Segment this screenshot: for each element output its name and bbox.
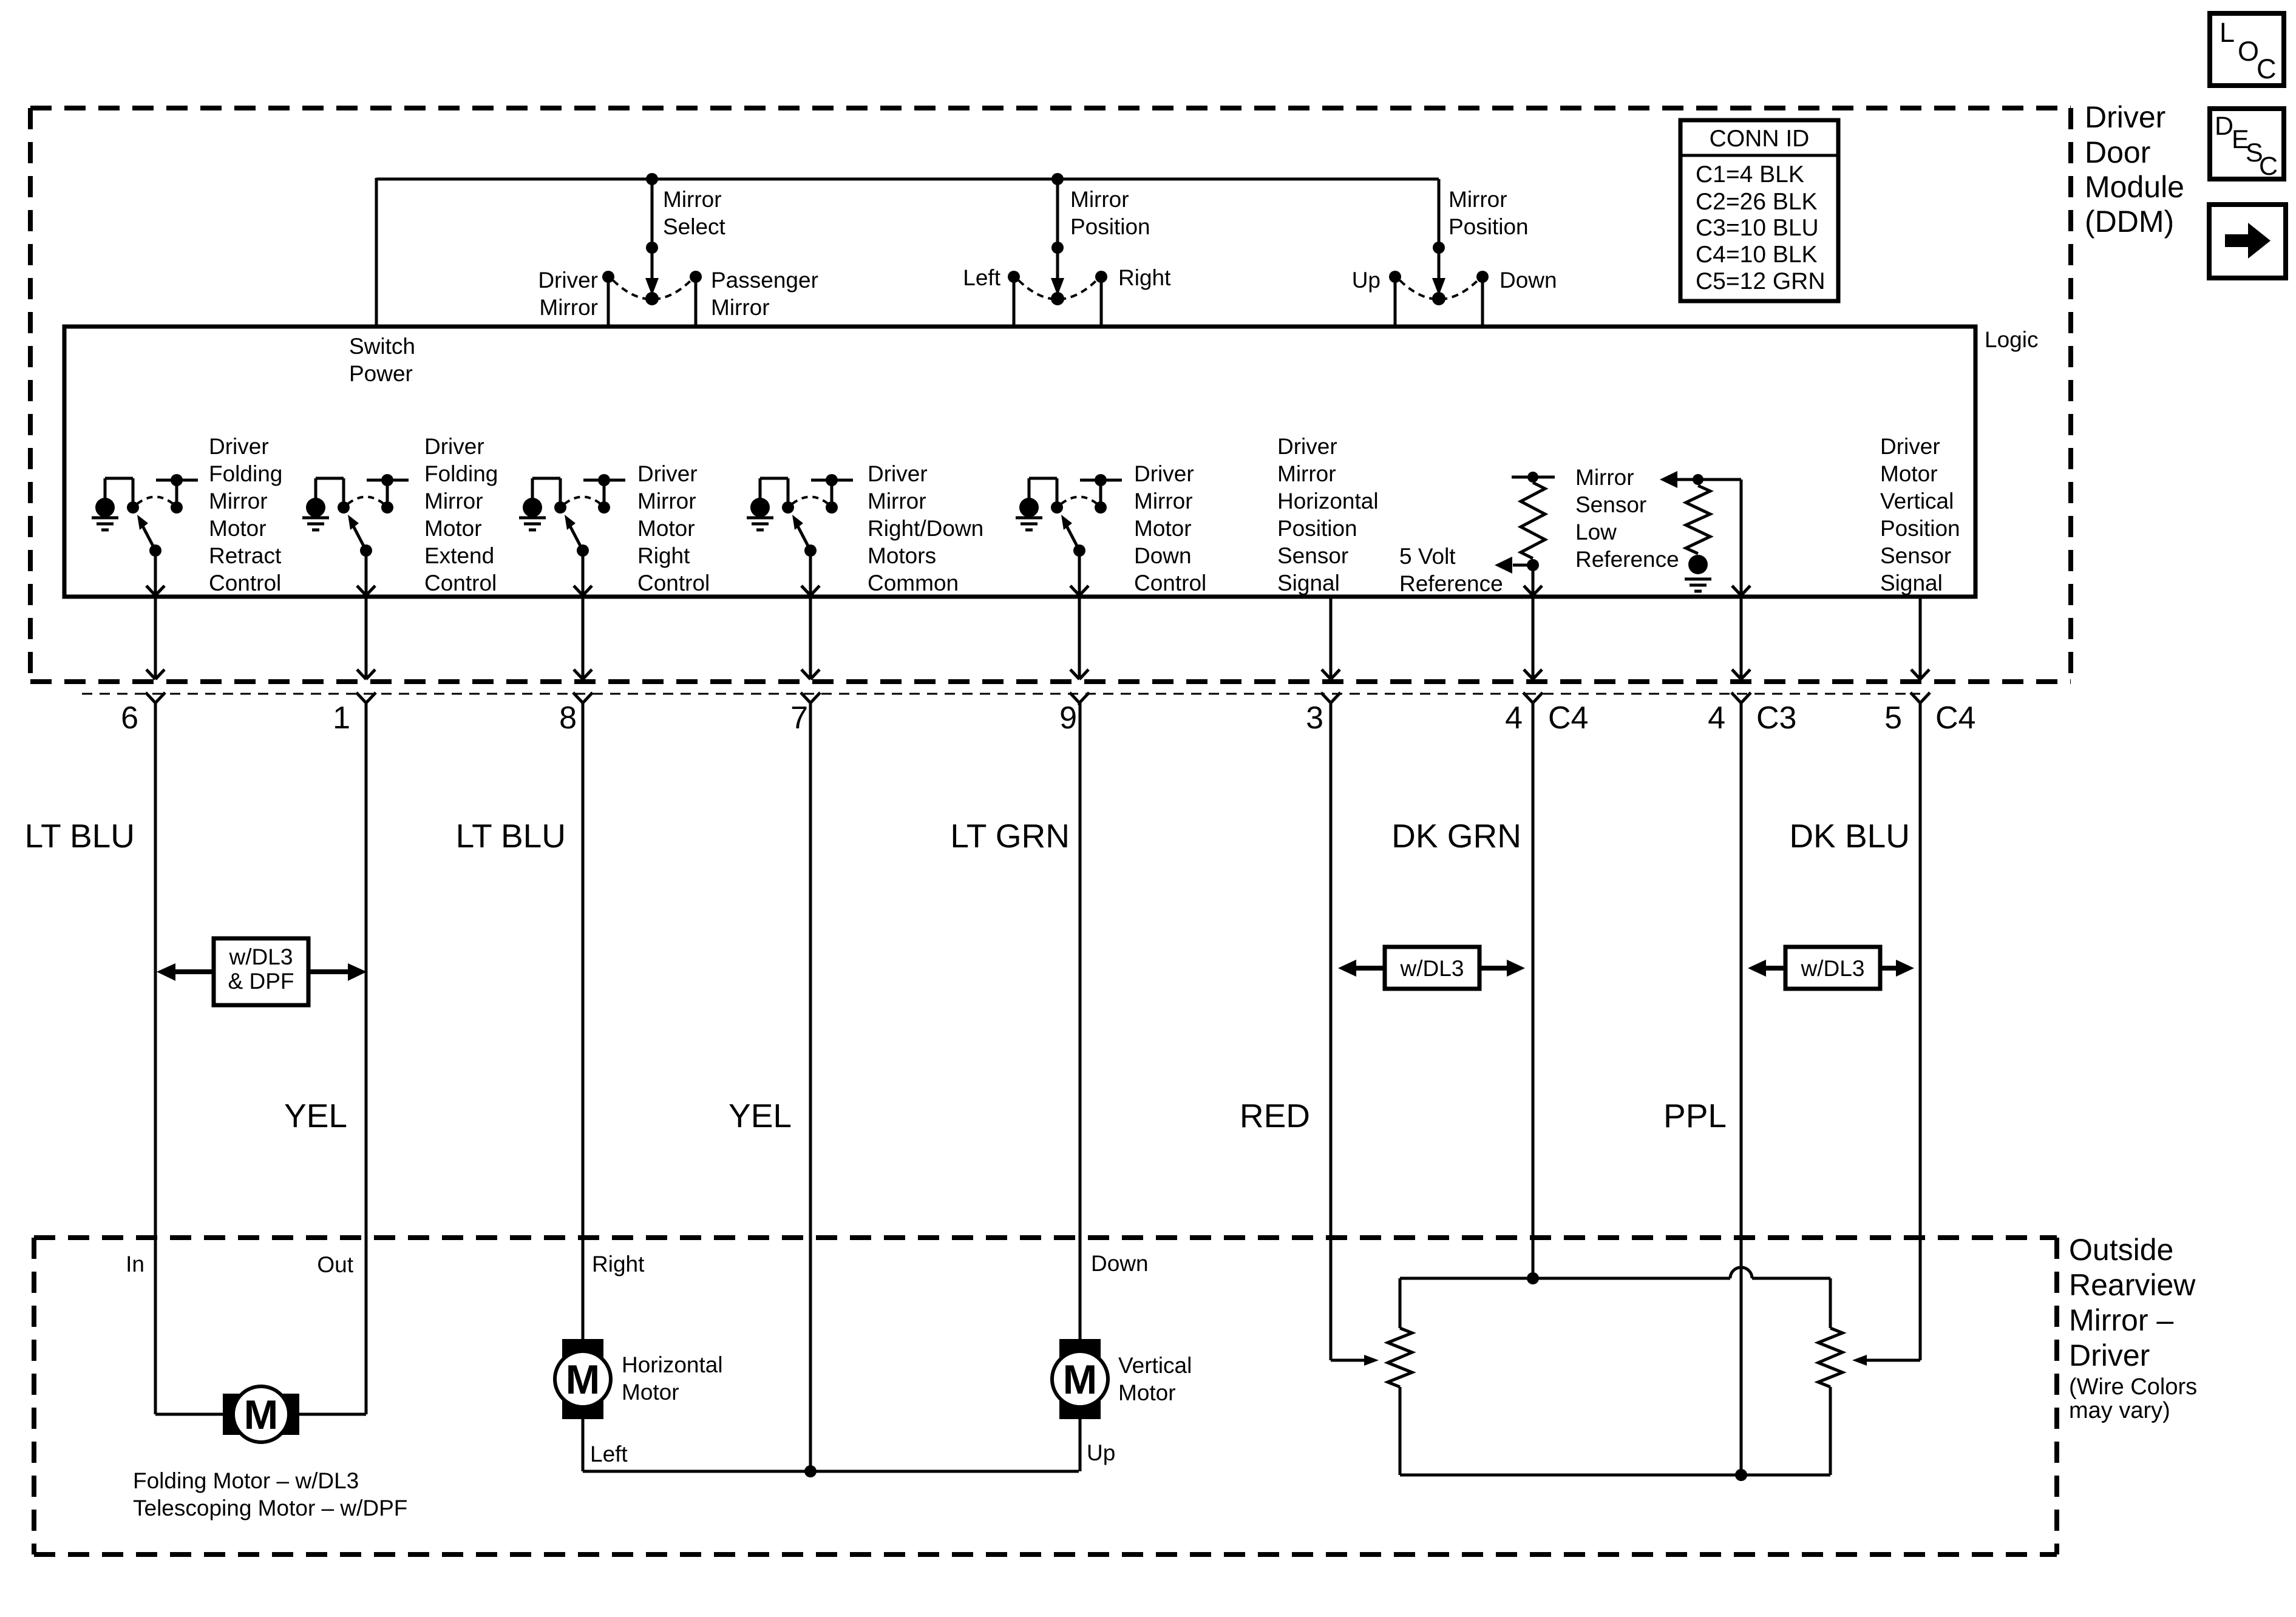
pin 4 (C3) label (1708, 700, 1796, 736)
svg-text:Right: Right (592, 1252, 645, 1276)
label: S2 Driver Folding Mirror Motor Extend Control (424, 434, 498, 595)
svg-text:C4: C4 (1935, 700, 1975, 736)
svg-text:C3: C3 (1756, 700, 1796, 736)
label: In (126, 1252, 144, 1276)
svg-text:DK GRN: DK GRN (1391, 817, 1521, 855)
label: 5 Volt Reference (1399, 544, 1503, 596)
svg-text:Motor: Motor (424, 516, 482, 541)
svg-text:Position: Position (1880, 516, 1960, 541)
svg-text:& DPF: & DPF (228, 969, 294, 994)
label: Down (wire 9) (1091, 1251, 1149, 1276)
svg-text:Door: Door (2085, 135, 2150, 169)
svg-text:Position: Position (1070, 214, 1150, 239)
svg-text:Driver: Driver (1880, 434, 1940, 459)
label: LT BLU (pin 8 wire) (456, 817, 566, 855)
svg-text:Mirror: Mirror (424, 489, 483, 514)
option box w/DL3 (vertical sensor) (1748, 947, 1914, 989)
wire 9 LT GRN run (1079, 703, 1082, 1339)
svg-text:Mirror: Mirror (868, 489, 926, 514)
option box w/DL3 (sensor signal) (1338, 947, 1525, 989)
svg-text:LT BLU: LT BLU (456, 817, 566, 855)
label: Vertical Motor (1118, 1353, 1192, 1405)
svg-text:LT GRN: LT GRN (950, 817, 1070, 855)
svg-text:Driver: Driver (538, 268, 598, 293)
svg-text:Driver: Driver (209, 434, 269, 459)
pin 7 label (790, 700, 808, 736)
wire: sensor loop bottom (1400, 1474, 1830, 1477)
svg-text:Telescoping Motor – w/DPF: Telescoping Motor – w/DPF (133, 1496, 407, 1520)
svg-text:DK BLU: DK BLU (1789, 817, 1910, 855)
label: DK BLU (pin 5 wire) (1789, 817, 1910, 855)
pin 3 label (1306, 700, 1323, 736)
svg-text:Position: Position (1449, 214, 1529, 239)
label: Outside Rearview Mirror - Driver (2069, 1233, 2197, 1423)
svg-text:Up: Up (1087, 1440, 1115, 1465)
option box w/DL3 & DPF (157, 938, 367, 1005)
LOC legend box (2210, 13, 2284, 86)
svg-text:Motor: Motor (1134, 516, 1192, 541)
svg-text:Signal: Signal (1277, 571, 1340, 595)
svg-text:LT BLU: LT BLU (25, 817, 135, 855)
switch S1 Driver Folding Mirror Motor Retract Control (92, 474, 198, 595)
wire: horizontal motor to common (583, 1419, 1079, 1471)
svg-text:Motor: Motor (1880, 461, 1938, 486)
svg-text:Motor: Motor (1118, 1380, 1176, 1405)
svg-text:Down: Down (1500, 268, 1557, 293)
switch SW2 Mirror Position (left/right) (1008, 173, 1107, 328)
motor M3 vertical (1052, 1339, 1108, 1419)
svg-text:D: D (2215, 112, 2233, 141)
label: S5 Driver Mirror Motor Down Control (1134, 461, 1206, 595)
wire: sensor loop top (1400, 1267, 1830, 1278)
svg-text:may vary): may vary) (2069, 1398, 2170, 1423)
svg-text:Vertical: Vertical (1118, 1353, 1192, 1378)
svg-text:Outside: Outside (2069, 1233, 2173, 1267)
svg-text:Driver: Driver (1277, 434, 1337, 459)
svg-text:w/DL3: w/DL3 (1400, 956, 1464, 981)
wire 8 LT BLU run (582, 703, 585, 1339)
svg-text:Control: Control (1134, 571, 1206, 595)
wire 3 RED run (1331, 703, 1379, 1366)
svg-text:Sensor: Sensor (1880, 543, 1951, 568)
wire 4C3 PPL run (1735, 703, 1747, 1481)
svg-text:Extend: Extend (424, 543, 494, 568)
svg-text:Reference: Reference (1575, 547, 1679, 572)
svg-text:Folding: Folding (424, 461, 498, 486)
wire: switch power bus (376, 178, 1439, 328)
wire 7 YEL run (804, 703, 817, 1477)
label: Driver Door Module (DDM) (2085, 100, 2184, 239)
svg-text:CONN ID: CONN ID (1710, 126, 1810, 152)
svg-text:4: 4 (1505, 700, 1523, 736)
label: Logic (1985, 327, 2038, 352)
svg-text:Driver: Driver (637, 461, 698, 486)
switch SW1 Mirror Select (602, 173, 702, 328)
label: Driver Mirror Horizontal Position Sensor Signal (1277, 434, 1379, 595)
label: Left (963, 265, 1000, 290)
svg-text:Vertical: Vertical (1880, 489, 1954, 514)
svg-text:Sensor: Sensor (1575, 492, 1646, 517)
svg-text:Left: Left (590, 1442, 628, 1466)
svg-text:Position: Position (1277, 516, 1357, 541)
svg-text:C2=26 BLK: C2=26 BLK (1696, 189, 1818, 215)
label: Right (592, 1252, 645, 1276)
svg-text:Out: Out (317, 1252, 353, 1277)
label: PPL (pin 4 C3 wire) (1663, 1097, 1727, 1134)
label: Out (317, 1252, 353, 1277)
svg-text:M: M (1063, 1357, 1098, 1403)
svg-text:Driver: Driver (868, 461, 928, 486)
DDM logic block outline (64, 327, 1975, 597)
svg-text:Motor: Motor (209, 516, 267, 541)
svg-text:C: C (2259, 152, 2278, 181)
switch S2 Driver Folding Mirror Motor Extend Control (302, 474, 409, 595)
pin 9 label (1059, 700, 1077, 736)
svg-text:C3=10 BLU: C3=10 BLU (1696, 215, 1819, 241)
svg-text:Driver: Driver (2069, 1338, 2150, 1372)
svg-text:Mirror: Mirror (1575, 465, 1634, 490)
label: LT BLU (pin 6 wire) (25, 817, 135, 855)
svg-text:YEL: YEL (729, 1097, 792, 1134)
svg-text:Mirror: Mirror (663, 187, 722, 212)
pin 8 label (559, 700, 577, 736)
connector pin arrows and chevrons (146, 598, 1930, 705)
label: Horizontal Motor (622, 1352, 723, 1405)
svg-text:Motor: Motor (622, 1380, 679, 1405)
pin 1 label (333, 700, 350, 736)
label: S3 Driver Mirror Motor Right Control (637, 461, 710, 595)
forward arrow legend box (2209, 205, 2286, 278)
svg-text:Power: Power (349, 361, 413, 386)
CONN ID table (1680, 120, 1838, 301)
svg-text:7: 7 (790, 700, 808, 736)
pin 5 (C4) label (1884, 700, 1975, 736)
motor M1 folding/telescoping (223, 1386, 299, 1442)
Driver Door Module (DDM) dashed border (30, 108, 2071, 682)
label: DK GRN (pin 4 C4 wire) (1391, 817, 1521, 855)
label: Right (1118, 265, 1171, 290)
motor M2 horizontal (555, 1339, 611, 1419)
svg-text:Motor: Motor (637, 516, 695, 541)
svg-text:9: 9 (1059, 700, 1077, 736)
label: Driver Mirror (538, 268, 598, 320)
wire 1 YEL run (298, 703, 366, 1414)
DESC legend box (2210, 109, 2284, 181)
label: RED (pin 3 wire) (1240, 1097, 1310, 1134)
Outside Rearview Mirror dashed border (34, 1238, 2057, 1554)
svg-text:Low: Low (1575, 520, 1617, 544)
label: Folding Motor / Telescoping Motor (133, 1468, 407, 1520)
svg-text:Signal: Signal (1880, 571, 1943, 595)
svg-text:In: In (126, 1252, 144, 1276)
resistor R1 (5 volt reference pull-up) (1495, 472, 1555, 595)
label: Mirror Select (663, 187, 726, 239)
svg-text:1: 1 (333, 700, 350, 736)
svg-text:Control: Control (637, 571, 710, 595)
resistor R2 (mirror sensor low reference) (1660, 471, 1750, 595)
svg-text:Right: Right (1118, 265, 1171, 290)
svg-text:Mirror: Mirror (209, 489, 268, 514)
label: Switch Power (349, 334, 415, 386)
svg-text:5 Volt: 5 Volt (1399, 544, 1456, 569)
svg-text:Module: Module (2085, 170, 2184, 204)
svg-text:Mirror: Mirror (1449, 187, 1507, 212)
svg-text:Common: Common (868, 571, 959, 595)
svg-text:Horizontal: Horizontal (1277, 489, 1379, 514)
svg-text:Switch: Switch (349, 334, 415, 359)
label: Up (1352, 268, 1381, 293)
svg-text:Folding Motor – w/DL3: Folding Motor – w/DL3 (133, 1468, 359, 1493)
svg-text:Retract: Retract (209, 543, 282, 568)
svg-text:Down: Down (1134, 543, 1192, 568)
label: Up (1087, 1440, 1115, 1465)
svg-text:6: 6 (121, 700, 138, 736)
pin 6 label (121, 700, 138, 736)
svg-text:Motors: Motors (868, 543, 936, 568)
svg-text:Down: Down (1091, 1251, 1149, 1276)
svg-text:M: M (244, 1392, 279, 1438)
svg-text:Mirror: Mirror (1134, 489, 1193, 514)
wire 5 DK BLU run (1852, 703, 1920, 1366)
label: Driver Motor Vertical Position Sensor Signal (1880, 434, 1960, 595)
label: YEL (pin 1 wire) (284, 1097, 347, 1134)
svg-text:4: 4 (1708, 700, 1725, 736)
label: Passenger Mirror (711, 268, 818, 320)
label: Mirror Sensor Low Reference (1575, 465, 1679, 572)
svg-text:Sensor: Sensor (1277, 543, 1348, 568)
svg-text:Passenger: Passenger (711, 268, 818, 293)
label: S4 Driver Mirror Right/Down Motors Common (868, 461, 983, 595)
svg-text:(Wire Colors: (Wire Colors (2069, 1374, 2197, 1400)
label: LT GRN (pin 9 wire) (950, 817, 1070, 855)
svg-text:Logic: Logic (1985, 327, 2038, 352)
label: Left (590, 1442, 628, 1466)
wire: vertical motor to common (1079, 1419, 1082, 1471)
switch SW3 Mirror Position (up/down) (1389, 179, 1489, 328)
svg-text:Reference: Reference (1399, 571, 1503, 596)
svg-text:C4=10 BLK: C4=10 BLK (1696, 242, 1818, 268)
svg-text:Driver: Driver (424, 434, 484, 459)
svg-text:C5=12 GRN: C5=12 GRN (1696, 268, 1826, 294)
svg-text:5: 5 (1884, 700, 1902, 736)
switch S4 Driver Mirror Right/Down Motors Common (747, 474, 853, 595)
pin 4 (C4) label (1505, 700, 1588, 736)
svg-text:RED: RED (1240, 1097, 1310, 1134)
svg-text:Right/Down: Right/Down (868, 516, 983, 541)
svg-text:Right: Right (637, 543, 690, 568)
wire 4C4 DK GRN run (1527, 703, 1539, 1284)
wire 6 LT BLU run (155, 703, 224, 1414)
svg-text:Left: Left (963, 265, 1000, 290)
label: S1 Driver Folding Mirror Motor Retract Control (209, 434, 282, 595)
svg-text:C1=4 BLK: C1=4 BLK (1696, 161, 1804, 188)
svg-text:Mirror: Mirror (711, 295, 770, 320)
svg-text:YEL: YEL (284, 1097, 347, 1134)
svg-text:Mirror –: Mirror – (2069, 1303, 2173, 1337)
svg-text:w/DL3: w/DL3 (229, 944, 293, 969)
svg-text:(DDM): (DDM) (2085, 205, 2174, 239)
svg-text:Driver: Driver (1134, 461, 1194, 486)
svg-text:C4: C4 (1548, 700, 1588, 736)
svg-text:w/DL3: w/DL3 (1801, 956, 1865, 981)
svg-text:Mirror: Mirror (1070, 187, 1129, 212)
svg-text:3: 3 (1306, 700, 1323, 736)
connector inline dashed line (82, 693, 1920, 695)
svg-text:Control: Control (424, 571, 497, 595)
label: YEL (pin 7 wire) (729, 1097, 792, 1134)
label: Mirror Position (U/D) (1449, 187, 1529, 239)
svg-text:Folding: Folding (209, 461, 282, 486)
svg-text:Mirror: Mirror (539, 295, 598, 320)
svg-text:PPL: PPL (1663, 1097, 1727, 1134)
svg-text:Control: Control (209, 571, 281, 595)
potentiometer R4 vertical position sensor (1818, 1278, 1843, 1475)
svg-text:Mirror: Mirror (637, 489, 696, 514)
svg-text:C: C (2257, 53, 2277, 84)
svg-text:O: O (2238, 36, 2259, 67)
switch S5 Driver Mirror Motor Down Control (1016, 474, 1122, 595)
svg-text:M: M (566, 1357, 600, 1403)
svg-text:Rearview: Rearview (2069, 1268, 2196, 1302)
label: Mirror Position (L/R) (1070, 187, 1150, 239)
svg-text:Select: Select (663, 214, 726, 239)
svg-text:8: 8 (559, 700, 577, 736)
label: Down (1500, 268, 1557, 293)
svg-text:Driver: Driver (2085, 100, 2165, 134)
switch S3 Driver Mirror Motor Right Control (519, 474, 625, 595)
svg-text:Horizontal: Horizontal (622, 1352, 723, 1377)
svg-text:L: L (2220, 17, 2235, 48)
potentiometer R3 horizontal position sensor (1388, 1278, 1412, 1475)
svg-text:Mirror: Mirror (1277, 461, 1336, 486)
svg-text:Up: Up (1352, 268, 1381, 293)
